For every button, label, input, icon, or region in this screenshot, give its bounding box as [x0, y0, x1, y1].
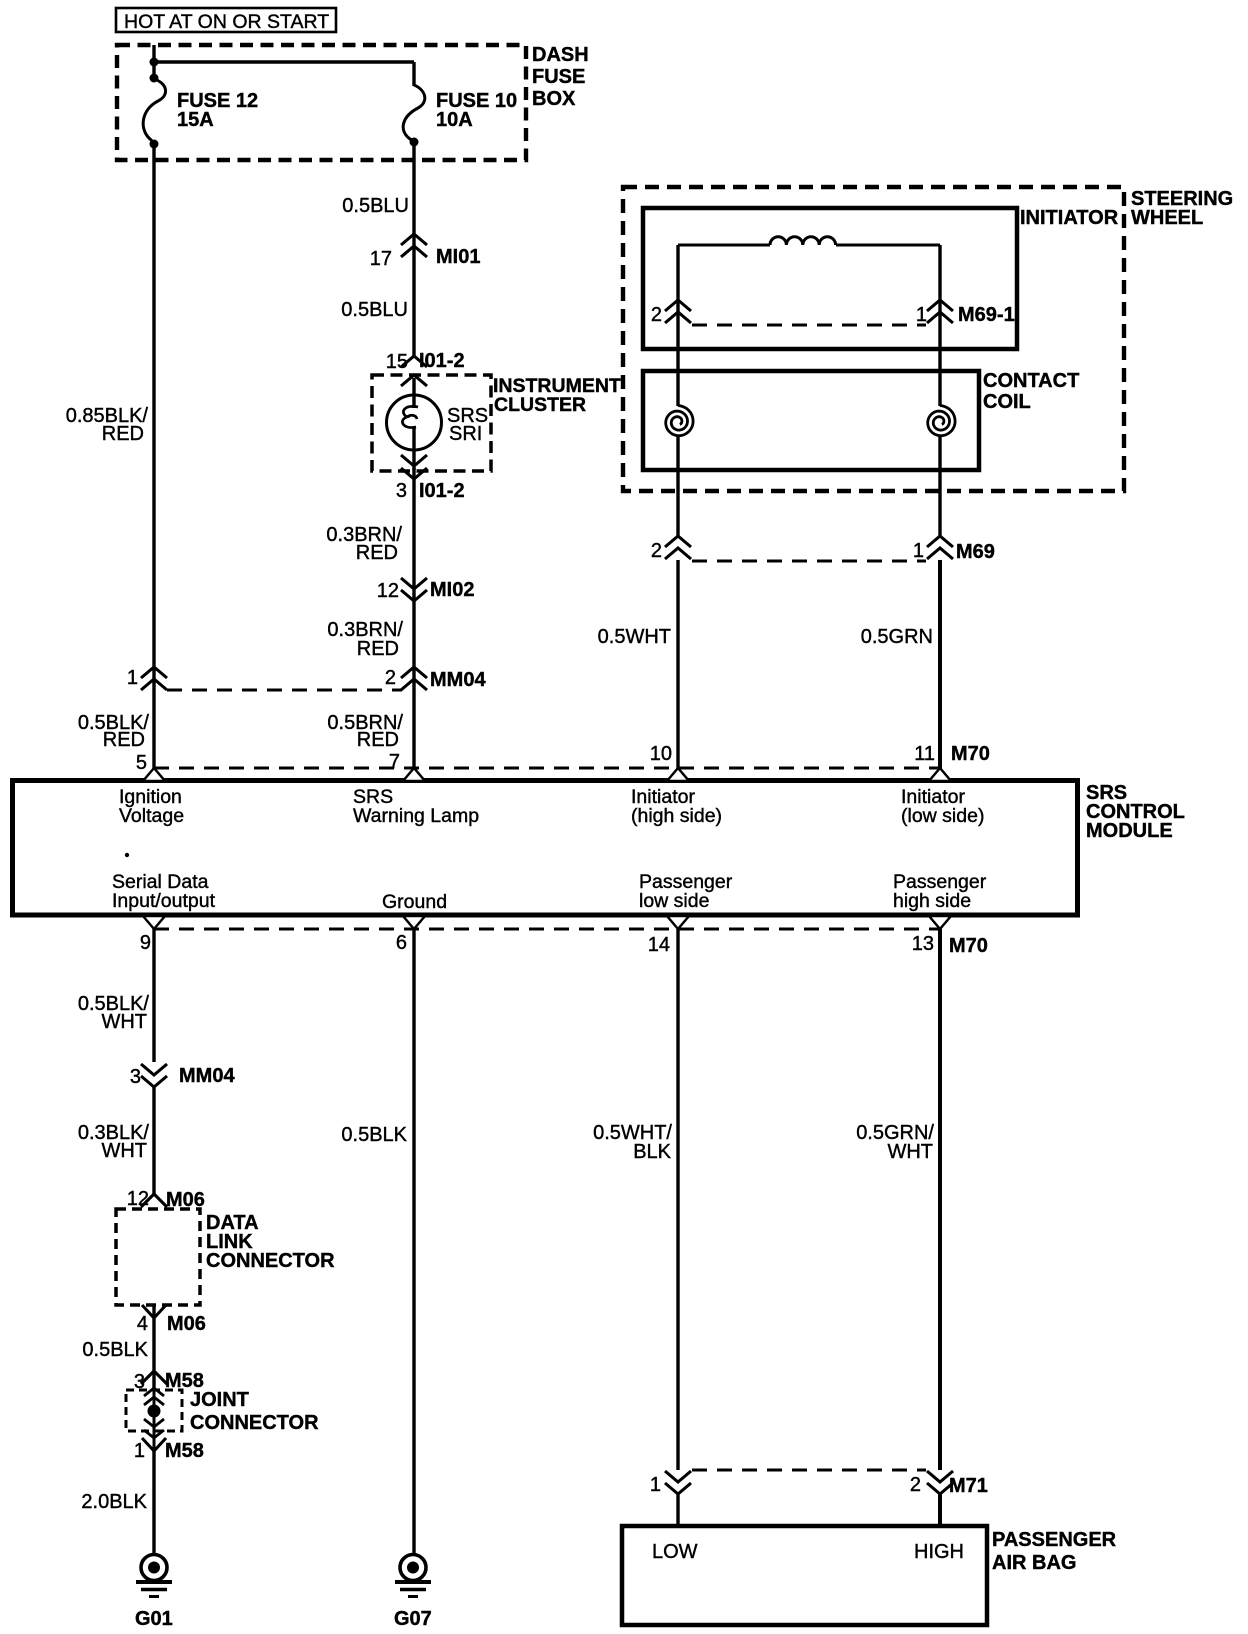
- wire initiator to contact coil right: [938, 302, 941, 406]
- svg-text:G07: G07: [394, 1608, 432, 1630]
- svg-text:Voltage: Voltage: [119, 805, 184, 827]
- svg-text:CLUSTER: CLUSTER: [494, 394, 586, 416]
- svg-text:CONNECTOR: CONNECTOR: [190, 1412, 319, 1434]
- connector M58 pin 1: [142, 1438, 166, 1451]
- wire fuse 12 to SRS control module pin 5, 0.85BLK/RED: [152, 144, 155, 769]
- svg-text:11: 11: [914, 743, 935, 765]
- wire instrument cluster to MI02, 0.3BRN/RED: [412, 468, 415, 769]
- connector MI01 pin 17: [401, 234, 427, 245]
- svg-text:INITIATOR: INITIATOR: [1020, 207, 1119, 229]
- scan speck: [125, 853, 129, 857]
- dash fuse box (dashed outline): [117, 45, 526, 160]
- svg-text:0.5WHT: 0.5WHT: [598, 626, 671, 648]
- svg-text:4: 4: [137, 1313, 148, 1335]
- svg-text:15: 15: [386, 351, 408, 373]
- svg-text:2: 2: [385, 667, 396, 689]
- wire fuse 10 to instrument cluster, 0.5BLU: [412, 142, 415, 357]
- module pin 13 triangle: [929, 916, 951, 929]
- svg-text:(high side): (high side): [631, 805, 722, 827]
- svg-text:JOINT: JOINT: [190, 1389, 249, 1411]
- wire M69 to module pin 11, 0.5GRN: [938, 560, 942, 769]
- svg-text:HIGH: HIGH: [914, 1541, 964, 1563]
- svg-text:Input/output: Input/output: [112, 890, 216, 912]
- svg-text:15A: 15A: [177, 109, 214, 131]
- fuse F10 10A: [403, 85, 425, 141]
- svg-text:WHT: WHT: [101, 1011, 147, 1033]
- svg-text:2: 2: [651, 540, 662, 562]
- wire initiator pin 2: [676, 245, 679, 302]
- svg-text:(low side): (low side): [901, 805, 984, 827]
- svg-text:0.5GRN: 0.5GRN: [861, 626, 933, 648]
- svg-text:FUSE: FUSE: [532, 66, 585, 88]
- connector M06 pin 4: [142, 1305, 166, 1318]
- wire M71 to passenger air bag high: [938, 1493, 942, 1528]
- joint connector (dashed outline): [126, 1390, 182, 1431]
- wire module pin 14 to M71, 0.5WHT/BLK: [676, 929, 679, 1470]
- connector MM04 pin 1 on ignition wire: [141, 667, 167, 678]
- svg-text:M71: M71: [949, 1475, 988, 1497]
- wire M71 to passenger air bag low: [676, 1493, 679, 1528]
- svg-text:I01-2: I01-2: [419, 480, 465, 502]
- connector M69-1 pin 2: [665, 300, 691, 311]
- svg-text:1: 1: [127, 667, 138, 689]
- fuse F12 15A: [143, 79, 165, 143]
- SRS warning lamp SRS SRI: [412, 378, 415, 408]
- svg-text:17: 17: [370, 248, 392, 270]
- connector MM04 pin 3: [141, 1064, 167, 1075]
- svg-text:RED: RED: [103, 729, 145, 751]
- wire module pin 9 to data link connector, 0.5BLK/WHT: [152, 929, 155, 1062]
- connector MM04 pin 2: [401, 667, 427, 678]
- svg-text:low side: low side: [639, 890, 709, 912]
- svg-text:13: 13: [912, 933, 934, 955]
- svg-text:AIR BAG: AIR BAG: [992, 1552, 1076, 1574]
- svg-text:RED: RED: [357, 729, 399, 751]
- svg-text:12: 12: [127, 1188, 149, 1210]
- svg-text:BLK: BLK: [633, 1141, 671, 1163]
- wire module pin 6 to ground G07, 0.5BLK: [412, 929, 415, 1554]
- junction node at fuse 12 feed: [150, 58, 159, 67]
- svg-text:2: 2: [651, 304, 662, 326]
- wire contact coil to M69 right, 0.5GRN: [938, 437, 941, 538]
- module pin 10 triangle: [667, 768, 689, 781]
- svg-text:0.5BLK: 0.5BLK: [82, 1339, 148, 1361]
- svg-text:2: 2: [910, 1474, 921, 1496]
- wire joint connector to ground, 2.0BLK: [152, 1451, 155, 1554]
- svg-text:BOX: BOX: [532, 88, 576, 110]
- connector I01-2 pin 3 (double chevron down): [401, 455, 427, 466]
- connector M71 pin 1: [665, 1471, 691, 1482]
- svg-text:MM04: MM04: [430, 669, 486, 691]
- wire initiator to contact coil left: [676, 302, 679, 406]
- wire M69 to module pin 10, 0.5WHT: [676, 560, 679, 769]
- svg-text:1: 1: [650, 1474, 661, 1496]
- lamp filament: [402, 406, 418, 427]
- svg-text:MI01: MI01: [436, 246, 480, 268]
- svg-text:1: 1: [916, 304, 927, 326]
- svg-text:3: 3: [396, 480, 407, 502]
- svg-text:10A: 10A: [436, 109, 473, 131]
- dashed connector line M71: [692, 1469, 926, 1472]
- svg-text:MI02: MI02: [430, 579, 474, 601]
- svg-text:M58: M58: [165, 1440, 204, 1462]
- steering wheel assembly (dashed outline): [623, 187, 1124, 491]
- svg-text:0.5BLU: 0.5BLU: [342, 195, 409, 217]
- initiator squib coil: [678, 244, 770, 247]
- dashed connector line M70 top: [154, 767, 940, 770]
- contact coil spiral right: [928, 406, 955, 436]
- svg-text:DASH: DASH: [532, 44, 589, 66]
- svg-text:HOT AT ON OR START: HOT AT ON OR START: [124, 11, 329, 33]
- svg-text:M06: M06: [167, 1313, 206, 1335]
- connector M06 pin 12: [141, 1194, 167, 1207]
- svg-text:0.5BLK: 0.5BLK: [341, 1124, 407, 1146]
- svg-text:2.0BLK: 2.0BLK: [81, 1491, 147, 1513]
- svg-text:WHT: WHT: [101, 1140, 147, 1162]
- instrument cluster (dashed outline): [372, 375, 491, 471]
- svg-text:M70: M70: [951, 743, 990, 765]
- power source label HOT AT ON OR START: [116, 8, 336, 32]
- joint connector internal chevrons and node: [144, 1388, 164, 1396]
- svg-text:6: 6: [396, 932, 407, 954]
- svg-text:G01: G01: [135, 1608, 173, 1630]
- wire M06 to joint connector, 0.5BLK: [152, 1305, 155, 1390]
- module pin 9 triangle: [143, 916, 165, 929]
- connector M69-1 pin 1: [927, 300, 953, 311]
- driver air bag initiator box: [643, 208, 1017, 349]
- wire MM04 to data link connector, 0.3BLK/WHT: [152, 1086, 155, 1196]
- svg-text:3: 3: [130, 1066, 141, 1088]
- svg-text:CONNECTOR: CONNECTOR: [206, 1250, 335, 1272]
- svg-text:M69: M69: [956, 541, 995, 563]
- svg-text:COIL: COIL: [983, 391, 1031, 413]
- svg-text:WHEEL: WHEEL: [1131, 207, 1203, 229]
- connector M69 pin 1: [927, 536, 953, 547]
- svg-text:7: 7: [389, 751, 400, 773]
- connector M58 pin 3: [141, 1371, 167, 1384]
- svg-text:MM04: MM04: [179, 1065, 235, 1087]
- SRS control module box: [13, 781, 1078, 916]
- connector I01-2 pin 15: [401, 356, 427, 367]
- svg-text:LOW: LOW: [652, 1541, 698, 1563]
- svg-text:M69-1: M69-1: [958, 304, 1015, 326]
- svg-text:10: 10: [650, 743, 672, 765]
- svg-text:WHT: WHT: [887, 1141, 933, 1163]
- dashed connector line MM04: [167, 689, 402, 692]
- wire branch to fuse 10: [154, 60, 414, 63]
- passenger air bag box: [622, 1526, 987, 1625]
- svg-text:Ground: Ground: [382, 891, 447, 913]
- module pin 14 triangle: [667, 916, 689, 929]
- wire from battery feed into fuse box: [152, 45, 155, 80]
- svg-text:PASSENGER: PASSENGER: [992, 1529, 1117, 1551]
- svg-text:9: 9: [140, 932, 151, 954]
- connector M71 pin 2: [927, 1471, 953, 1482]
- connector M69 pin 2: [665, 536, 691, 547]
- svg-text:I01-2: I01-2: [419, 350, 465, 372]
- ground G01: [141, 1555, 167, 1581]
- svg-text:SRI: SRI: [449, 423, 482, 445]
- svg-text:CONTACT: CONTACT: [983, 370, 1079, 392]
- svg-text:0.5BLU: 0.5BLU: [341, 299, 408, 321]
- module pin 7 triangle: [403, 768, 425, 781]
- svg-text:M70: M70: [949, 935, 988, 957]
- svg-text:Warning Lamp: Warning Lamp: [353, 805, 479, 827]
- contact coil spiral left: [666, 406, 693, 436]
- svg-text:high side: high side: [893, 890, 971, 912]
- svg-text:RED: RED: [356, 542, 398, 564]
- ground G07: [400, 1555, 426, 1581]
- dashed connector line M70 bottom: [154, 928, 940, 931]
- junction node fuse 12 top terminal: [150, 74, 159, 83]
- svg-text:5: 5: [136, 752, 147, 774]
- wire initiator pin 1: [938, 245, 941, 302]
- svg-text:1: 1: [134, 1440, 145, 1462]
- dashed connector line M69-1: [692, 324, 926, 327]
- svg-text:MODULE: MODULE: [1086, 820, 1173, 842]
- svg-text:14: 14: [648, 934, 670, 956]
- connector MI02 pin 12: [401, 578, 427, 589]
- svg-text:1: 1: [913, 540, 924, 562]
- dashed connector line M69: [692, 560, 926, 563]
- contact coil box: [643, 371, 979, 470]
- svg-text:RED: RED: [102, 423, 144, 445]
- module pin 5 triangle: [143, 768, 165, 781]
- module pin 6 triangle: [403, 916, 425, 929]
- wire module pin 13 to M71, 0.5GRN/WHT: [938, 929, 942, 1470]
- wire contact coil to M69 left, 0.5WHT: [676, 437, 679, 538]
- module pin 11 triangle: [929, 768, 951, 781]
- svg-text:12: 12: [377, 580, 399, 602]
- svg-text:RED: RED: [357, 638, 399, 660]
- data link connector (dashed outline): [116, 1209, 200, 1305]
